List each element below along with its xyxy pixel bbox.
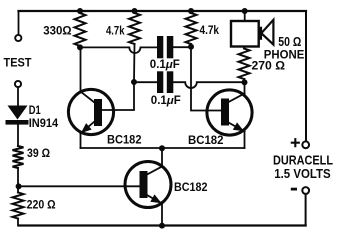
node junction top of R330 [77,8,83,14]
wire 4.7k second down through dip to Q2 base elbow [191,44,221,111]
node junction left rail / Q3 base [16,183,22,189]
resistor 39 ohm [13,146,24,168]
node junction collector Q2 / R270 / cap2 [242,79,248,85]
resistor 220 ohm [13,193,24,219]
svg-text:4.7k: 4.7k [200,23,220,37]
phone 50 ohm earpiece box [231,21,259,47]
svg-text:D1: D1 [29,105,41,117]
wire diode to R 39 [17,125,19,146]
wire collector Q1 from R330 node [80,47,82,91]
transistor Q1 BC182 (left) [68,89,113,134]
wire emitter Q3 to bottom rail [161,204,163,226]
svg-text:1.5 VOLTS: 1.5 VOLTS [274,167,331,181]
wire cap1 right [173,46,191,48]
wire right rail [305,11,307,141]
node junction bottom of R4.7k second [188,44,194,50]
resistor 4.7k first [129,13,140,44]
wire collector Q3 to emitter rail [161,148,163,167]
svg-text:39 Ω: 39 Ω [27,146,50,160]
wire battery minus to bottom rail [305,194,307,225]
wire cap2 left [134,81,157,83]
wire cap1 left with hop under R4.7k lead [80,47,157,53]
svg-text:BC182: BC182 [107,132,142,146]
svg-text:DURACELL: DURACELL [273,154,333,168]
node junction emitter rail / Q3 collector [159,145,165,151]
wire R39 to node [17,168,19,193]
phone speaker horn [261,20,274,45]
resistor 270 ohm [239,49,250,80]
label plus [292,139,299,146]
wire 4.7k first down through hop to Q1 base elbow [102,44,135,110]
svg-text:TEST: TEST [4,55,33,69]
wire phone box to R270 [244,47,246,49]
capacitor C1 0.1uF [157,36,173,58]
terminal TEST top [15,35,21,41]
svg-text:220 Ω: 220 Ω [27,198,56,212]
resistor 4.7k second [186,13,197,44]
svg-text:IN914: IN914 [29,118,59,130]
node junction phone top [242,8,248,14]
wire base Q3 from left node [19,185,140,187]
wire terminal to diode [17,87,19,105]
label minus [291,188,297,191]
svg-text:BC182: BC182 [174,180,208,194]
terminal battery minus [302,187,309,194]
svg-text:BC182: BC182 [188,133,224,147]
wire 220 to bottom rail [17,219,19,226]
node junction bottom of R330 [77,44,83,50]
svg-text:4.7k: 4.7k [106,24,125,38]
wire R270 to node [244,79,246,82]
svg-text:270 Ω: 270 Ω [252,59,286,73]
resistor 330 ohm [75,13,86,46]
wire phone drop [244,11,246,21]
node junction top of R4.7k first [132,8,138,14]
terminal TEST bottom [15,81,21,87]
svg-text:0.1μF: 0.1μF [150,59,180,71]
diode D1 IN914 [6,106,29,125]
transistor Q2 BC182 (right) [207,90,252,135]
wire top rail [19,10,307,12]
node junction bottom rail / Q3 emitter [159,223,165,229]
wire collector Q2 to node [244,82,246,93]
wire left drop to TEST terminal [18,11,20,35]
wire emitter rail [81,147,245,149]
wire emitter Q2 down to emitter rail [244,132,246,149]
wire emitter Q1 down to emitter rail [80,134,82,149]
wire cap2 right with dip hop under 4.7k lead [173,82,244,88]
node junction top of R4.7k second [188,8,194,14]
svg-text:330Ω: 330Ω [43,24,72,38]
capacitor C2 0.1uF [157,71,173,93]
transistor Q3 BC182 (bottom) [125,162,171,208]
wire bottom rail [19,224,306,226]
node junction cap2 left [131,79,137,85]
svg-text:0.1μF: 0.1μF [151,95,181,107]
terminal battery plus [302,141,309,148]
